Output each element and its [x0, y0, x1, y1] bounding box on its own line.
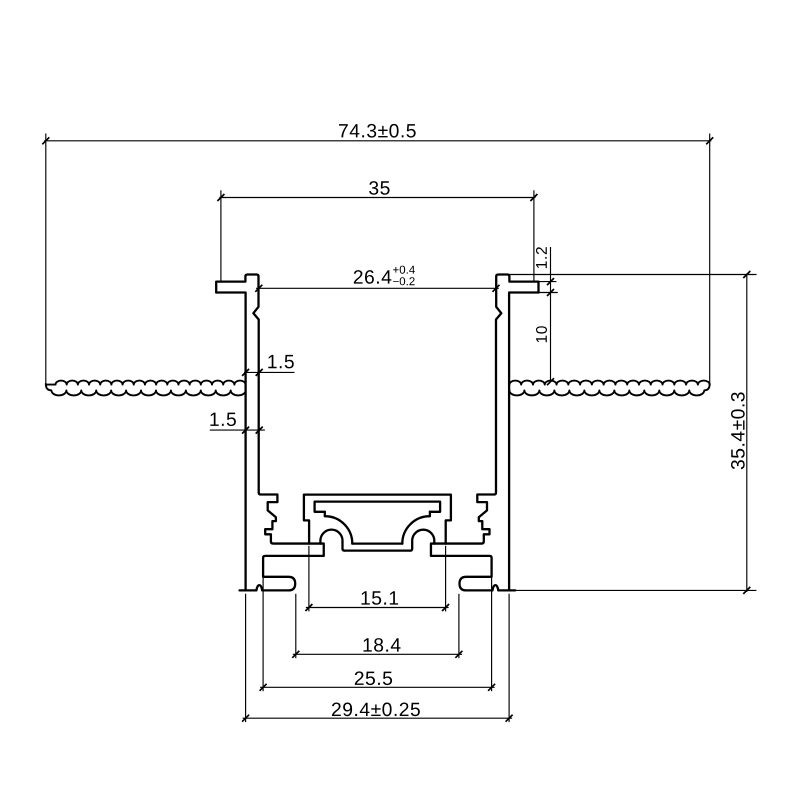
dim line vertical x=550.5: [550, 247, 552, 382]
label 1.2 (rotated): [536, 247, 547, 268]
extension line left (x=45.8): [45, 134, 47, 386]
tick right: [442, 604, 449, 611]
left flange underside and left channel outer wall: [216, 293, 245, 591]
tick at flange bottom: [547, 289, 554, 296]
tick left: [305, 604, 312, 611]
tick left: [260, 684, 267, 691]
label 35.4±0.3 (rotated): [731, 392, 745, 469]
dim line 26.4: [256, 287, 499, 289]
extension line left (x=245.6): [245, 594, 247, 722]
dimension 25.5 lower housing width: [260, 576, 496, 691]
tick right: [493, 285, 500, 292]
left screw-boss semicircle: [320, 530, 344, 551]
dim line 29.4: [243, 717, 512, 719]
DIMS: [42, 124, 756, 722]
extension line right (x=458.9): [458, 594, 460, 658]
LED tray floor line: [352, 542, 402, 544]
tick top: [743, 271, 750, 278]
right screw-boss semicircle: [410, 530, 434, 551]
dimensions 1.2 flange thickness and 10 recess depth: [536, 247, 558, 385]
plasterboard break band right, bottom scallops: [509, 384, 709, 396]
tick at board surface: [547, 378, 554, 385]
dimension 35.4±0.3 overall height: [509, 271, 756, 594]
label 26.4: [354, 270, 392, 284]
extension line right (x=533.9): [533, 190, 535, 281]
dimension 35 flange hook spacing: [217, 181, 537, 281]
LED tray inner ceiling and side steps: [315, 502, 441, 512]
PROFILE: [46, 275, 710, 591]
plasterboard break band left, top scallops: [46, 381, 245, 385]
tick right: [455, 651, 462, 658]
tick right: [706, 137, 713, 144]
dimension 15.1 LED tray width: [305, 546, 449, 612]
LED tray outer box: [304, 495, 451, 544]
tick inner wall: [256, 369, 263, 376]
right flange underside and right channel outer wall: [509, 293, 538, 591]
label 29.4±0.25: [332, 703, 420, 717]
dimension 1.5 wall thickness lower: [210, 413, 265, 434]
dim line 1.5 upper: [244, 371, 295, 373]
left plaster wing, hook lip, channel inner wall with barb notch, spring teeth and lower-left housing with diffuser slot: [216, 275, 324, 591]
tick at flange top: [547, 278, 554, 285]
label 25.5: [355, 671, 392, 685]
dimension 26.4 +0.4/-0.2 channel opening: [255, 266, 499, 292]
label 1.5 lower: [210, 413, 236, 427]
dim line 74.3: [44, 140, 711, 142]
LED tray right quarter-arc rib: [402, 512, 430, 544]
tick left: [292, 651, 299, 658]
extension line flange top: [539, 281, 557, 283]
dim line 35: [219, 197, 535, 199]
tick left: [42, 137, 49, 144]
extension line right (x=509.1): [508, 594, 510, 722]
dim line 25.5: [260, 686, 495, 688]
dimension 74.3±0.5 overall width: [42, 124, 713, 385]
tick outer wall: [242, 427, 249, 434]
extension line left (x=220.9): [220, 190, 222, 281]
extension line left (x=263.1): [262, 576, 264, 691]
tick left: [242, 715, 249, 722]
tick outer wall: [242, 369, 249, 376]
dim line 18.4: [293, 653, 462, 655]
tick left: [255, 285, 262, 292]
tick right: [488, 684, 495, 691]
extension line left (x=308.9): [308, 546, 310, 612]
LED tray left quarter-arc rib: [325, 512, 353, 544]
extension line right (x=491.6): [491, 576, 493, 691]
tick left: [217, 194, 224, 201]
dimension 18.4 between diffuser slots: [292, 594, 462, 658]
plasterboard break band left, bottom scallops: [46, 384, 246, 396]
dim line 15.1: [306, 607, 449, 609]
extension line bottom (y=590.4): [515, 589, 756, 591]
extension line right (x=709.7): [709, 134, 711, 386]
dimension 29.4±0.25 channel body width: [242, 594, 512, 722]
extension line right (x=445.6): [445, 546, 447, 612]
tolerance -0.2: [393, 277, 415, 285]
label 1.5 upper: [268, 355, 294, 369]
tick inner wall: [256, 427, 263, 434]
right plaster wing, hook lip, channel inner wall with barb notch, spring teeth and lower-right housing with diffuser slot: [431, 275, 539, 591]
dim line vertical x=746.8: [746, 274, 748, 592]
plasterboard break band right, top scallops: [509, 381, 709, 385]
label 18.4: [364, 638, 401, 652]
extension line left (x=295.8): [295, 594, 297, 658]
dim line 1.5 lower: [210, 429, 265, 431]
LED tray bottom plate: [345, 549, 411, 551]
extension line flange bottom: [539, 292, 558, 294]
extension line top (y=274.5): [509, 274, 756, 276]
dimension 1.5 wall thickness upper: [242, 355, 294, 376]
label 35: [369, 181, 390, 195]
tolerance +0.4: [393, 266, 415, 274]
label 10 (rotated): [536, 326, 547, 342]
label 74.3±0.5: [339, 124, 416, 138]
tick right: [530, 194, 537, 201]
tick bottom: [743, 587, 750, 594]
tick right: [506, 715, 513, 722]
label 15.1: [362, 591, 399, 605]
